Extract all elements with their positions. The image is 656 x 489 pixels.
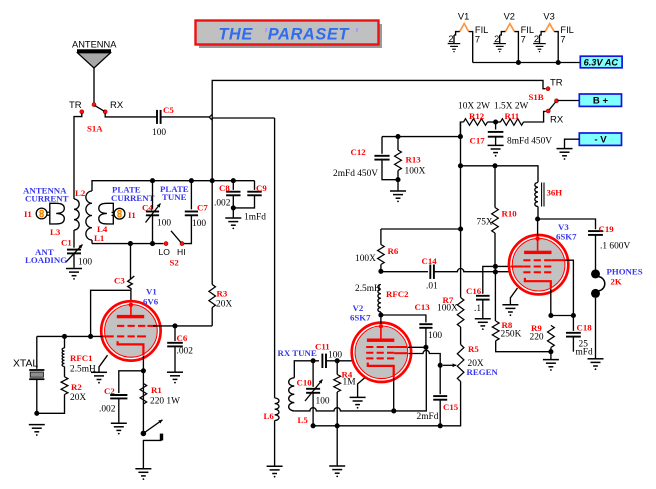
- node RFC2 R6 C14: [378, 269, 383, 274]
- svg-text:100: 100: [157, 219, 171, 229]
- resistor R4: [334, 361, 356, 426]
- wire plate top: [130, 290, 132, 302]
- capacitor C2: [99, 371, 143, 423]
- capacitor C1 ant loading: [25, 230, 92, 268]
- svg-text:V2: V2: [353, 303, 364, 313]
- box 6.3V AC: [580, 56, 622, 68]
- svg-text:RX TUNE: RX TUNE: [278, 348, 317, 358]
- wire cathode rail V3: [551, 315, 574, 317]
- choke RFC2: [355, 284, 409, 315]
- svg-text:36H: 36H: [547, 188, 563, 198]
- svg-text:C4: C4: [142, 202, 153, 212]
- ground R13: [390, 191, 406, 198]
- wire V1 screen to C6 node: [153, 325, 212, 327]
- svg-text:2mFd: 2mFd: [417, 412, 439, 422]
- wire V2 grid to regen wiper: [409, 350, 441, 365]
- svg-text:10X 2W: 10X 2W: [458, 102, 490, 112]
- svg-text:I1: I1: [128, 210, 136, 220]
- box -V: [579, 133, 621, 146]
- svg-text:1M: 1M: [343, 378, 357, 388]
- wire S1A RX to C5: [105, 113, 156, 117]
- capacitor C7: [183, 181, 209, 244]
- svg-text:20X: 20X: [70, 393, 86, 403]
- capacitor C13: [381, 302, 442, 347]
- svg-text:L4: L4: [97, 224, 108, 234]
- ground filament V3: [533, 44, 545, 50]
- svg-text:C18: C18: [577, 323, 593, 333]
- svg-text:2mFd 450V: 2mFd 450V: [333, 169, 378, 179]
- ground C2: [111, 423, 127, 430]
- svg-text:V3: V3: [543, 12, 554, 22]
- capacitor C6: [167, 326, 193, 372]
- svg-text:6V6: 6V6: [143, 297, 159, 307]
- key switch: [141, 420, 164, 469]
- svg-text:RX: RX: [110, 100, 124, 111]
- svg-text:2.5mH: 2.5mH: [70, 365, 96, 375]
- svg-text:R13: R13: [406, 155, 422, 165]
- svg-text:8mFd 450V: 8mFd 450V: [507, 137, 552, 147]
- switch S1A: [69, 100, 124, 134]
- svg-text:2: 2: [448, 34, 453, 44]
- svg-text:TUNE: TUNE: [162, 192, 187, 202]
- svg-text:FIL: FIL: [560, 25, 573, 35]
- tube V1 6V6: [101, 287, 160, 361]
- svg-text:100: 100: [316, 397, 330, 407]
- svg-text:THE 'PARASET ': THE 'PARASET ': [218, 26, 359, 44]
- svg-text:.002: .002: [99, 405, 116, 415]
- antenna: [72, 40, 117, 69]
- svg-text:.1 600V: .1 600V: [600, 242, 630, 252]
- node XTAL ground junction: [34, 411, 39, 416]
- wire V1 grid line: [37, 335, 103, 337]
- resistor R9: [530, 323, 555, 352]
- svg-text:TR: TR: [69, 100, 82, 111]
- svg-text:.1: .1: [474, 304, 481, 314]
- svg-text:L1: L1: [94, 233, 104, 243]
- wire R8 grid leak: [494, 272, 496, 321]
- switch S2 LO HI: [159, 231, 186, 268]
- tube V2 6SK7: [350, 303, 411, 382]
- svg-text:C10: C10: [297, 378, 313, 388]
- pickup loop L3: [50, 203, 65, 237]
- ground C8: [225, 218, 241, 225]
- svg-text:100: 100: [428, 331, 442, 341]
- svg-text:V2: V2: [504, 12, 515, 22]
- resistor R1: [140, 384, 180, 407]
- capacitor C9: [236, 181, 268, 223]
- svg-text:FIL: FIL: [475, 25, 488, 35]
- svg-text:S2: S2: [170, 258, 180, 268]
- choke RFC1: [62, 336, 96, 376]
- svg-text:R11: R11: [505, 111, 520, 121]
- ground phones: [588, 359, 604, 366]
- ground XTAL: [29, 425, 45, 432]
- pickup loop L4: [97, 203, 113, 234]
- svg-text:CURRENT: CURRENT: [25, 194, 69, 204]
- svg-text:C6: C6: [177, 333, 188, 343]
- resistor R3: [209, 285, 232, 326]
- inductor 36H choke: [535, 183, 562, 220]
- resistor R7: [437, 295, 464, 327]
- svg-text:100: 100: [152, 128, 166, 138]
- wire plate to C19: [538, 219, 596, 229]
- wire C3 to grid node: [91, 290, 131, 336]
- svg-text:R10: R10: [502, 209, 518, 219]
- svg-text:R12: R12: [469, 111, 485, 121]
- ground filament V2: [493, 44, 505, 50]
- resistor R8: [492, 320, 551, 352]
- svg-text:L3: L3: [50, 227, 61, 237]
- ground V1 cathode tap: [91, 355, 108, 383]
- variable capacitor C4 plate tune: [142, 181, 189, 244]
- svg-text:REGEN: REGEN: [467, 367, 499, 377]
- wire R6 to B+ line: [381, 228, 461, 230]
- capacitor C15: [417, 365, 459, 426]
- node R12 R11 C17: [488, 121, 501, 123]
- wire V1 cathode down: [142, 356, 144, 433]
- wire V2 cathode stem: [393, 378, 395, 411]
- wire RX tank top: [278, 348, 320, 378]
- wire top rail to S1B TR: [212, 80, 545, 284]
- wire V2 screen to C13 node: [408, 346, 426, 348]
- svg-text:2K: 2K: [611, 277, 622, 287]
- svg-text:7: 7: [475, 34, 480, 44]
- svg-text:100: 100: [192, 219, 206, 229]
- svg-text:C14: C14: [422, 256, 438, 266]
- wire C16 jog to V3 grid: [483, 266, 510, 271]
- wire B+ chain to R7: [460, 229, 462, 298]
- wire S1A TR to L2: [74, 113, 82, 199]
- svg-text:7: 7: [560, 34, 565, 44]
- capacitor C11: [315, 342, 353, 369]
- wire R7 to R5: [460, 327, 462, 345]
- svg-text:C2: C2: [104, 386, 115, 396]
- svg-text:XTAL: XTAL: [13, 359, 38, 370]
- inductor L1: [86, 191, 104, 244]
- inductor L5: [289, 378, 309, 425]
- meter I1 antenna current: [23, 186, 69, 220]
- svg-text:LO: LO: [159, 247, 171, 257]
- svg-text:75X: 75X: [477, 218, 493, 228]
- svg-text:RX: RX: [550, 115, 564, 126]
- wire junction to RX line: [212, 117, 274, 119]
- wire V3 plate stem: [537, 219, 539, 236]
- svg-text:R3: R3: [217, 289, 228, 299]
- wire C5 to junction: [161, 116, 209, 118]
- ground key: [135, 469, 151, 476]
- node V3 plate: [535, 216, 540, 221]
- capacitor C19: [588, 224, 630, 270]
- ground C17: [488, 145, 504, 152]
- ground C1: [66, 269, 82, 276]
- ground audio rail: [543, 352, 559, 371]
- svg-text:L2: L2: [75, 188, 86, 198]
- svg-text:V1: V1: [146, 287, 157, 297]
- svg-text:L5: L5: [298, 415, 309, 425]
- svg-text:C15: C15: [443, 402, 459, 412]
- svg-text:mFd: mFd: [576, 348, 594, 358]
- filament V2: [494, 12, 534, 63]
- wire antenna lead: [93, 68, 95, 103]
- svg-text:I1: I1: [24, 209, 32, 219]
- wire V2 top plate: [380, 315, 382, 324]
- svg-text:.002: .002: [214, 199, 231, 209]
- svg-text:1mFd: 1mFd: [244, 213, 266, 223]
- svg-text:100X: 100X: [355, 254, 376, 264]
- capacitor C8: [214, 181, 241, 218]
- ground filament V1: [448, 44, 460, 50]
- svg-text:C5: C5: [163, 105, 174, 115]
- svg-text:6.3V AC: 6.3V AC: [584, 57, 619, 67]
- svg-text:R9: R9: [531, 323, 542, 333]
- wire R8 R9 C18 ground rail: [548, 349, 553, 354]
- svg-text:C8: C8: [219, 183, 230, 193]
- variable capacitor C10: [297, 361, 330, 426]
- ground C16: [475, 319, 491, 326]
- meter I1 plate current: [111, 185, 155, 221]
- svg-text:L6: L6: [264, 411, 275, 421]
- svg-text:C17: C17: [470, 136, 486, 146]
- wire tank top line: [92, 181, 255, 191]
- svg-text:- V: - V: [594, 135, 607, 146]
- wire V3 cathode stem: [550, 289, 552, 316]
- wire ground rail: [313, 382, 461, 426]
- antenna coil L6: [264, 398, 280, 466]
- capacitor C5: [152, 105, 174, 138]
- capacitor C18: [566, 316, 593, 358]
- ground rail stem: [329, 426, 345, 478]
- switch S1B: [529, 78, 564, 126]
- wire V3 screen to C18: [566, 260, 574, 315]
- capacitor C17: [470, 122, 553, 147]
- svg-text:C13: C13: [415, 302, 431, 312]
- capacitor C16: [466, 272, 490, 319]
- svg-text:220: 220: [530, 333, 544, 343]
- resistor R2: [37, 377, 87, 414]
- svg-text:C19: C19: [599, 224, 615, 234]
- svg-text:R8: R8: [502, 320, 513, 330]
- ground L6: [267, 466, 283, 473]
- resistor R11: [494, 102, 546, 126]
- svg-text:100: 100: [328, 351, 342, 361]
- wire cathode rail: [294, 347, 426, 411]
- svg-text:S1B: S1B: [529, 92, 544, 102]
- title box THE PARASET: [196, 21, 383, 49]
- svg-text:2: 2: [534, 34, 539, 44]
- svg-text:C12: C12: [351, 147, 367, 157]
- resistor R5 regen: [443, 344, 498, 382]
- inductor L2: [74, 188, 86, 230]
- wire S1B to B+ box: [558, 100, 580, 102]
- svg-text:1.5X 2W: 1.5X 2W: [494, 102, 529, 112]
- phone jacks: [591, 267, 643, 298]
- svg-text:FIL: FIL: [521, 25, 534, 35]
- svg-text:PHONES: PHONES: [607, 267, 643, 277]
- svg-text:R6: R6: [388, 246, 399, 256]
- svg-text:R1: R1: [151, 385, 162, 395]
- svg-text:R2: R2: [71, 382, 82, 392]
- svg-text:B +: B +: [593, 96, 609, 107]
- svg-text:ANTENNA: ANTENNA: [72, 40, 117, 50]
- svg-text:C16: C16: [466, 286, 482, 296]
- svg-text:6SK7: 6SK7: [350, 313, 371, 323]
- wire B+ distribution: [382, 136, 460, 138]
- svg-text:6SK7: 6SK7: [556, 232, 577, 242]
- svg-text:C3: C3: [114, 276, 125, 286]
- capacitor C14: [381, 256, 510, 292]
- wire RX feed vertical: [274, 118, 276, 398]
- svg-text:RFC2: RFC2: [386, 289, 409, 299]
- resistor R10: [477, 166, 518, 267]
- svg-text:.01: .01: [426, 282, 438, 292]
- ground -V: [557, 139, 580, 160]
- box B+: [579, 94, 621, 107]
- wire tank bottom line: [92, 243, 164, 245]
- filament V1: [448, 12, 488, 63]
- svg-text:R5: R5: [468, 344, 479, 354]
- capacitor C12: [333, 137, 398, 180]
- svg-text:100X: 100X: [437, 304, 458, 314]
- svg-text:100X: 100X: [405, 167, 426, 177]
- svg-text:C7: C7: [197, 202, 208, 212]
- ground V3 cathode tap: [502, 288, 518, 316]
- filament V3: [533, 12, 573, 63]
- svg-text:100: 100: [78, 258, 92, 268]
- svg-text:7: 7: [521, 34, 526, 44]
- svg-text:V1: V1: [458, 12, 469, 22]
- svg-text:TR: TR: [550, 78, 563, 89]
- svg-text:V3: V3: [558, 222, 569, 232]
- svg-text:250K: 250K: [501, 330, 522, 340]
- svg-text:RFC1: RFC1: [70, 353, 92, 363]
- capacitor C3 feedback: [114, 244, 134, 291]
- svg-text:C9: C9: [256, 183, 267, 193]
- svg-text:.002: .002: [177, 347, 194, 357]
- ground V2 cathode tap: [350, 378, 366, 409]
- svg-text:LOADING: LOADING: [25, 255, 67, 265]
- svg-text:S1A: S1A: [87, 124, 103, 134]
- wire filament bus: [473, 62, 581, 64]
- svg-text:HI: HI: [177, 247, 186, 257]
- svg-text:C1: C1: [61, 238, 72, 248]
- ground C6: [167, 372, 183, 379]
- svg-text:2: 2: [494, 34, 499, 44]
- svg-text:2.5mH: 2.5mH: [355, 284, 381, 294]
- resistor R13: [395, 137, 426, 191]
- svg-text:20X: 20X: [216, 300, 232, 310]
- tube V3 6SK7: [509, 222, 577, 294]
- resistor R12: [458, 102, 490, 137]
- resistor R6: [355, 229, 399, 271]
- wire phones to ground: [595, 298, 597, 359]
- crystal XTAL: [13, 336, 44, 413]
- svg-text:220 1W: 220 1W: [150, 397, 180, 407]
